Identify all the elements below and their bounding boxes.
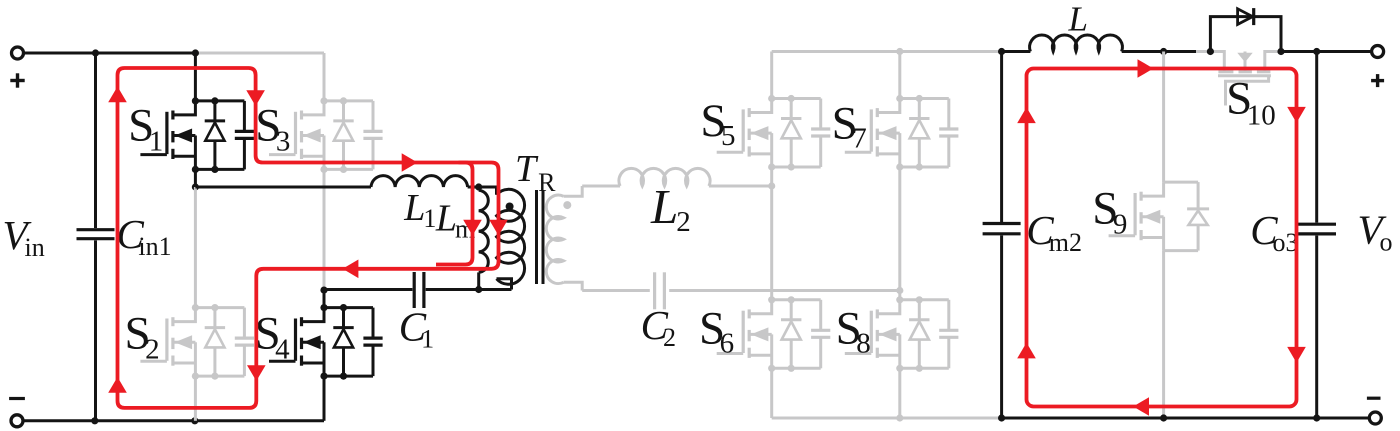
label Lm bbox=[435, 198, 475, 244]
wire leg4 upper (gray) bbox=[898, 52, 901, 99]
svg-text:S7: S7 bbox=[832, 97, 867, 154]
inductor L bbox=[1030, 35, 1123, 52]
node Co3 top junction bbox=[1313, 48, 1320, 55]
wire S9 leg lower (gray) bbox=[1162, 251, 1165, 418]
red arrow up input left bbox=[108, 87, 127, 103]
svg-text:L2: L2 bbox=[650, 179, 691, 238]
svg-text:L: L bbox=[1068, 0, 1088, 39]
wire leg4 S7 to C2 junction (gray) bbox=[898, 167, 901, 300]
node L2 junction (gray) bbox=[768, 182, 775, 189]
capacitor Co3 bbox=[1298, 52, 1336, 419]
svg-text:S8: S8 bbox=[836, 303, 871, 360]
inductor Lm (magnetizing) bbox=[479, 187, 489, 290]
transistor S10 (gray) bbox=[1210, 52, 1280, 106]
node top rail Cin1 junction bbox=[92, 49, 99, 56]
svg-text:C1: C1 bbox=[399, 303, 434, 353]
transistor S4 bbox=[269, 304, 383, 380]
svg-text:S5: S5 bbox=[700, 95, 735, 152]
transformer TR primary winding bbox=[479, 187, 525, 290]
transformer TR secondary winding (gray) bbox=[546, 186, 582, 291]
label S4 bbox=[255, 307, 291, 365]
red arrow down output right lower bbox=[1287, 347, 1306, 363]
label S5 bbox=[700, 95, 735, 152]
diode D symbol bbox=[1238, 8, 1254, 25]
label TR bbox=[515, 148, 556, 197]
red arrow up output left upper bbox=[1017, 107, 1036, 123]
capacitor C1 bbox=[324, 272, 512, 308]
red arrow down primary branch bbox=[489, 220, 508, 236]
label L1 bbox=[403, 187, 436, 233]
wire leg1 middle (gray) bbox=[194, 187, 197, 308]
label S1 bbox=[128, 100, 163, 158]
label S10 bbox=[1226, 73, 1276, 132]
red arrow down output right upper bbox=[1287, 107, 1306, 123]
node B (primary bottom junction) bbox=[475, 286, 482, 293]
node top rail S1 leg junction bbox=[192, 49, 199, 56]
input - terminal bbox=[9, 399, 25, 427]
transistor S6 (gray) bbox=[717, 296, 831, 372]
wire L1 to node A bbox=[468, 186, 479, 189]
red arrow down S3 branch bbox=[246, 90, 265, 106]
inductor L2 (gray) bbox=[619, 168, 710, 186]
wire S10 to Co3 and + terminal bbox=[1281, 50, 1371, 53]
transistor S2 (gray) bbox=[140, 304, 254, 380]
svg-text:S3: S3 bbox=[255, 99, 290, 157]
wire L1 node to inductor bbox=[195, 186, 371, 189]
node L1 junction bbox=[192, 183, 199, 190]
wire secondary top to L2 (gray) bbox=[582, 185, 620, 188]
node Co3 bottom junction bbox=[1313, 414, 1320, 421]
svg-text:S1: S1 bbox=[128, 100, 163, 158]
transistor S5 (gray) bbox=[717, 95, 831, 171]
node S7 leg bottom (gray) bbox=[896, 414, 903, 421]
node A (primary top junction) bbox=[475, 183, 482, 190]
red arrow down S4 branch bbox=[247, 365, 266, 381]
primary polarity dot bbox=[506, 203, 514, 211]
svg-text:S2: S2 bbox=[125, 307, 160, 365]
svg-text:Cin1: Cin1 bbox=[117, 211, 172, 261]
svg-text:S6: S6 bbox=[699, 303, 734, 360]
wire leg2 S3 source to C1 junction (gray) bbox=[323, 169, 326, 290]
label Co3 bbox=[1250, 207, 1298, 257]
wire red branch through Lm bbox=[436, 163, 473, 265]
node S7 leg top (gray) bbox=[896, 48, 903, 55]
label Vo bbox=[1358, 206, 1393, 256]
svg-text:S9: S9 bbox=[1092, 182, 1127, 240]
svg-text:C2: C2 bbox=[641, 302, 676, 352]
transistor S1 bbox=[140, 97, 254, 173]
label S8 bbox=[836, 303, 871, 360]
node S10 left bbox=[1207, 48, 1214, 55]
wire leg1 lower (gray) bbox=[194, 376, 197, 421]
output - terminal bbox=[1367, 398, 1381, 424]
node S9 leg top bbox=[1160, 48, 1167, 55]
wire leg1 upper (rail to S1 drain) bbox=[194, 53, 197, 101]
wire leg2 upper (gray, rail to S3) bbox=[323, 53, 326, 101]
label S6 bbox=[699, 303, 734, 360]
label L2 bbox=[650, 179, 691, 238]
wire leg3 middle (gray) bbox=[770, 186, 773, 300]
wire top rail left (black) bbox=[23, 52, 196, 55]
wire top rail right segment (gray) bbox=[195, 52, 324, 55]
wire leg2 C1 junction to S4 drain bbox=[323, 290, 326, 308]
transistor S7 (gray) bbox=[845, 95, 959, 171]
capacitor Cin1 bbox=[77, 53, 115, 421]
wire bottom rail left bridge bbox=[22, 419, 324, 422]
svg-text:S4: S4 bbox=[255, 307, 291, 365]
node bottom rail Cin1 junction bbox=[91, 417, 98, 424]
svg-text:Cm2: Cm2 bbox=[1026, 207, 1082, 257]
inductor L1 bbox=[371, 176, 468, 187]
secondary polarity dot (gray) bbox=[563, 201, 571, 209]
svg-text:Vin: Vin bbox=[3, 212, 45, 262]
wire right bottom rail bbox=[1002, 417, 1370, 420]
wire leg3 S5 to L2 junction (gray) bbox=[770, 167, 773, 186]
red arrow up input left lower bbox=[108, 377, 127, 393]
svg-text:TR: TR bbox=[515, 148, 556, 197]
node bottom rail S2 leg junction bbox=[191, 417, 198, 424]
node right section bottom-left bbox=[998, 414, 1005, 421]
label L bbox=[1068, 0, 1088, 39]
label S9 bbox=[1092, 182, 1127, 240]
capacitor Cm2 bbox=[983, 52, 1021, 419]
red arrow left output bottom bbox=[1133, 397, 1149, 416]
label S2 bbox=[125, 307, 160, 365]
red arrow right output top bbox=[1138, 59, 1154, 78]
node S9 leg bottom bbox=[1160, 414, 1167, 421]
wire mid bridge top rail (gray) bbox=[772, 50, 1002, 53]
node C1 junction on leg2 bbox=[320, 287, 327, 294]
capacitor C2 (gray) bbox=[582, 272, 900, 309]
wire leg1 S1 source to L1 junction bbox=[194, 169, 197, 187]
wire leg3 upper (gray) bbox=[770, 52, 773, 99]
wire top rail to inductor L bbox=[1002, 50, 1031, 53]
wire S10 drain lead (gray) bbox=[1196, 50, 1210, 53]
wire mid bridge bottom rail (gray) bbox=[772, 417, 1002, 420]
transformer TR core bbox=[537, 190, 544, 284]
wire leg4 lower (gray) bbox=[898, 368, 901, 418]
wire leg3 lower (gray) bbox=[770, 368, 773, 418]
wire L2 to bridge midpoint (gray) bbox=[709, 185, 772, 188]
diode D bypass branch bbox=[1210, 17, 1281, 52]
wire S9 leg upper (gray) bbox=[1162, 52, 1165, 183]
svg-text:Vo: Vo bbox=[1358, 206, 1393, 256]
wire L to S10 node (black) bbox=[1122, 50, 1196, 53]
red arrow right above L1 bbox=[402, 153, 418, 172]
svg-text:L1: L1 bbox=[403, 187, 436, 233]
red arrow left return line bbox=[343, 260, 359, 279]
red arrow up output left lower bbox=[1017, 343, 1036, 359]
transistor S3 (gray) bbox=[269, 97, 383, 173]
label C1 bbox=[399, 303, 434, 353]
node right section top-left bbox=[998, 48, 1005, 55]
wire red loop output section bbox=[1027, 69, 1297, 407]
transistor S8 (gray) bbox=[845, 296, 959, 372]
node C2 junction (gray) bbox=[896, 287, 903, 294]
transistor S9 (gray, no cap) bbox=[1109, 182, 1210, 251]
label S3 bbox=[255, 99, 290, 157]
wire red loop input bridge bbox=[118, 68, 499, 408]
input + terminal bbox=[10, 47, 24, 88]
label Cm2 bbox=[1026, 207, 1082, 257]
label Vin bbox=[3, 212, 45, 262]
label C2 bbox=[641, 302, 676, 352]
red arrow down Lm branch bbox=[463, 220, 482, 236]
svg-text:Co3: Co3 bbox=[1250, 207, 1298, 257]
node S10 right bbox=[1277, 48, 1284, 55]
label Cin1 bbox=[117, 211, 172, 261]
wire leg2 lower (S4 source to rail) bbox=[323, 376, 326, 421]
label S7 bbox=[832, 97, 867, 154]
output + terminal bbox=[1371, 46, 1384, 88]
